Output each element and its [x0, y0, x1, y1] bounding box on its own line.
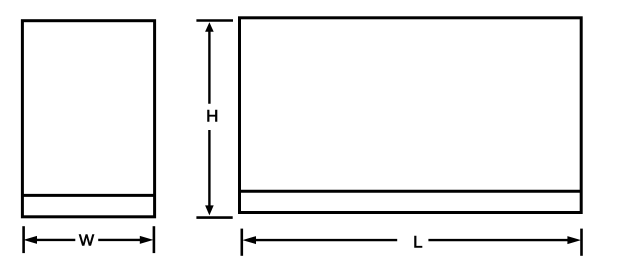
dimension L arrowhead left: [242, 236, 256, 244]
svg-text:W: W: [79, 233, 95, 250]
svg-text:L: L: [413, 232, 422, 251]
dimension L arrow line right segment: [428, 239, 569, 241]
dimension H arrow line upper segment: [208, 31, 210, 104]
dimension L right extension tick: [580, 229, 583, 256]
dimension H top tick: [196, 19, 233, 22]
side view outline (W x H box): [22, 21, 154, 217]
front view outline (L x H box): [240, 18, 582, 213]
dimension L left extension tick: [241, 229, 244, 256]
front view base strip line: [240, 190, 582, 193]
dimension W left extension tick: [22, 226, 25, 253]
dimension L arrow line left segment: [256, 239, 398, 241]
dimension W right extension tick: [153, 226, 156, 253]
dimension W arrow line left segment: [37, 239, 76, 241]
side view base strip line: [22, 194, 154, 197]
dimension H bottom tick: [196, 216, 232, 219]
dimension L arrowhead right: [567, 236, 581, 244]
dimension W arrowhead right: [140, 236, 154, 244]
svg-text:H: H: [206, 106, 218, 125]
dimension H arrowhead down: [205, 205, 214, 215]
dimension H arrowhead up: [205, 22, 214, 32]
dimension W arrow line right segment: [98, 239, 141, 241]
dimension H arrow line lower segment: [208, 130, 210, 206]
dimension W arrowhead left: [23, 236, 37, 244]
